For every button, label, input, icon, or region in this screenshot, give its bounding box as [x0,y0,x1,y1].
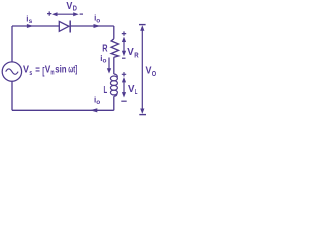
wire right vertical lower [113,96,115,110]
svg-text:=: = [35,64,40,76]
svg-text:ωt]: ωt] [68,65,77,76]
svg-text:V: V [127,46,134,58]
VR minus [122,57,126,59]
svg-text:V: V [146,65,152,77]
current arrow io bottom head [90,108,97,112]
wire right vertical upper [113,26,115,39]
VR plus [122,31,126,35]
svg-text:V: V [128,83,135,95]
minus VD [80,13,83,15]
current arrow io top head [94,24,101,28]
wire right vertical middle [113,57,115,74]
resistor R zigzag [111,39,118,58]
svg-text:L: L [104,84,108,96]
VR measure double arrow [123,41,125,53]
wire bottom horizontal [12,109,114,111]
VO top bar [139,24,146,26]
VO measure arrow line [141,29,143,112]
wire left vertical lower [11,81,13,110]
VL measure double arrow [123,81,125,94]
VL plus [122,72,126,76]
current arrow io middle [108,58,110,70]
VL minus [121,100,126,102]
VO top arrowhead [140,25,144,30]
svg-text:sin: sin [55,65,66,76]
svg-text:s: s [29,70,32,77]
svg-text:O: O [152,71,157,78]
svg-text:o: o [96,99,100,106]
wire top-right horizontal [71,25,114,27]
svg-text:m: m [50,70,54,77]
source sine wave [6,69,18,74]
svg-text:R: R [134,52,138,59]
wire top-left horizontal [12,25,59,27]
plus VD [47,11,51,15]
svg-text:V: V [23,64,29,76]
VO bottom arrowhead [140,109,144,114]
svg-text:V: V [45,64,51,76]
VO bottom bar [139,114,146,116]
diode cathode bar [69,21,71,33]
svg-text:V: V [66,0,72,12]
wire left vertical upper [11,26,13,62]
svg-text:o: o [96,18,100,25]
source Vs circle [2,62,21,81]
inductor L coil [114,74,117,77]
svg-text:R: R [102,43,108,55]
diode D triangle [59,21,69,31]
current arrow is head [27,24,33,28]
svg-text:L: L [135,89,138,96]
svg-text:D: D [73,6,77,13]
svg-text:o: o [103,58,107,65]
VD measure double arrow [57,13,75,15]
svg-text:s: s [29,18,33,25]
